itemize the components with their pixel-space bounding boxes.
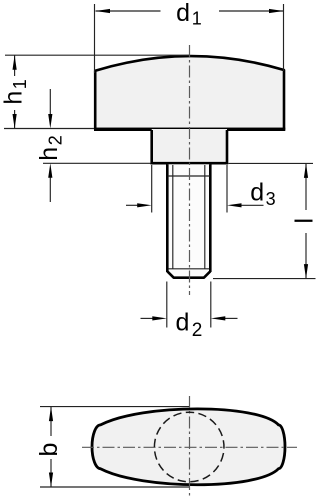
- hidden hub circle (dashed): [148, 406, 230, 488]
- svg-text:h: h: [0, 91, 27, 105]
- dimension d3 extension line right: [226, 165, 228, 213]
- threaded stud body: [167, 164, 210, 272]
- knob head outline: [94, 56, 285, 129]
- svg-text:h: h: [35, 147, 63, 161]
- svg-text:1: 1: [192, 9, 202, 29]
- thread runout line: [168, 268, 209, 270]
- dimension d3 arrow left (outside, pointing right): [126, 203, 152, 207]
- svg-text:d: d: [176, 0, 190, 27]
- dimension h1 extension line top: [5, 54, 189, 56]
- dimension h2 arrow bottom (outside, pointing up): [48, 163, 52, 202]
- dimension b arrow top: [49, 407, 53, 422]
- top view vertical centerline: [189, 396, 191, 497]
- wing knob top view outline: [92, 409, 285, 485]
- label b: [35, 443, 63, 457]
- dimension d2 arrow left (outside, pointing right): [141, 316, 167, 320]
- dimension d1 arrow left: [96, 9, 111, 13]
- dimension d1 line: [96, 10, 284, 12]
- label d2: [176, 309, 190, 337]
- dimension b arrow bottom: [49, 473, 53, 488]
- svg-text:b: b: [35, 443, 63, 457]
- svg-text:d: d: [250, 178, 264, 206]
- dimension l arrow top: [304, 163, 308, 178]
- thread minor line left: [172, 165, 174, 269]
- collar outline: [151, 129, 229, 163]
- dimension d2 extension line right: [210, 282, 212, 328]
- dimension l extension line top: [228, 162, 313, 164]
- label h2: [35, 147, 63, 161]
- label d3: [250, 178, 264, 206]
- dimension d3 extension line left: [151, 165, 153, 213]
- svg-text:l: l: [291, 218, 316, 224]
- label d1: [176, 0, 190, 27]
- top view horizontal centerline: [82, 446, 297, 448]
- dimension h1 arrow top: [13, 55, 17, 69]
- thread minor line right: [204, 165, 206, 269]
- svg-text:2: 2: [192, 320, 203, 341]
- dimension d3 arrow right (outside, pointing left): [227, 203, 264, 207]
- svg-text:d: d: [176, 309, 190, 337]
- dimension h1 arrow bottom: [13, 114, 17, 129]
- dimension h1 extension line bottom: [4, 128, 94, 130]
- dimension l arrow bottom: [304, 264, 308, 279]
- label h1: [0, 91, 27, 105]
- svg-text:1: 1: [10, 79, 30, 89]
- dimension h1 line: [14, 55, 16, 128]
- dimension h2 extension line bottom: [43, 162, 151, 164]
- dimension h2 arrow top (outside, pointing down): [48, 89, 52, 129]
- dimension l extension line bottom: [213, 278, 316, 280]
- svg-text:2: 2: [46, 135, 66, 145]
- dimension b line: [50, 407, 52, 487]
- dimension d1 extension line left: [94, 4, 96, 73]
- dimension b extension line top: [40, 406, 189, 408]
- thread runout line top: [168, 175, 210, 177]
- stud bottom chamfer and end face: [167, 271, 210, 277]
- label l: [291, 218, 319, 224]
- dimension d1 extension line right: [283, 4, 285, 71]
- dimension l line: [305, 163, 307, 278]
- dimension b extension line bottom: [40, 486, 189, 488]
- svg-text:3: 3: [266, 189, 276, 209]
- centerline of knob axis: [189, 45, 191, 295]
- dimension d1 arrow right: [269, 9, 284, 13]
- dimension d2 arrow right (outside, pointing left): [211, 316, 238, 320]
- dimension d2 extension line left: [166, 282, 168, 328]
